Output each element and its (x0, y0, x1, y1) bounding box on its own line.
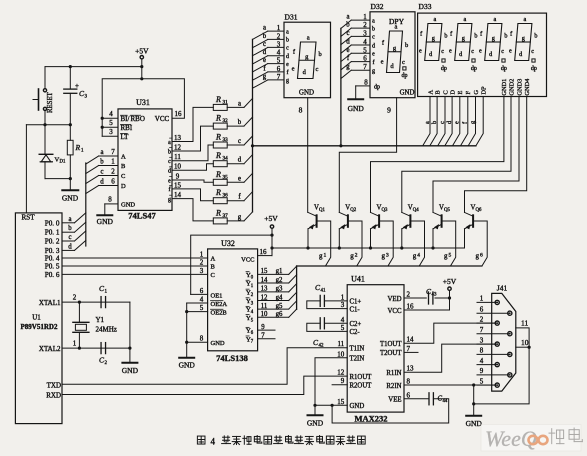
svg-text:c: c (263, 41, 266, 48)
svg-text:1: 1 (111, 158, 115, 166)
svg-text:C: C (121, 173, 125, 180)
svg-text:OE1: OE1 (211, 292, 223, 299)
svg-text:A: A (211, 256, 216, 263)
svg-text:RXD: RXD (46, 392, 61, 400)
svg-text:dp: dp (531, 66, 537, 72)
svg-text:9: 9 (341, 377, 345, 385)
watermark WeeQoo (481, 425, 582, 452)
svg-text:b: b (286, 38, 289, 44)
svg-text:c: c (531, 48, 534, 55)
svg-text:+5V: +5V (264, 214, 278, 223)
svg-text:dp: dp (471, 66, 477, 72)
wire TXD to T1IN (62, 348, 347, 385)
svg-text:b: b (504, 33, 507, 40)
svg-text:8: 8 (407, 378, 411, 386)
svg-text:9: 9 (387, 106, 391, 115)
svg-text:e: e (419, 47, 422, 54)
svg-text:4: 4 (200, 296, 204, 304)
svg-text:2: 2 (363, 21, 367, 29)
svg-text:G: G (473, 90, 480, 95)
svg-text:2: 2 (407, 291, 411, 299)
svg-text:b: b (100, 159, 104, 166)
svg-text:P0. 4: P0. 4 (45, 255, 60, 263)
svg-text:g: g (413, 252, 417, 260)
svg-text:J41: J41 (497, 284, 508, 293)
+5V supply (U32 / transistor rail) (264, 214, 278, 256)
svg-text:P0. 2: P0. 2 (45, 238, 60, 246)
svg-text:U41: U41 (351, 275, 365, 284)
svg-text:36: 36 (223, 193, 229, 199)
U31 output pin letters and numbers (168, 134, 182, 203)
svg-text:R1OUT: R1OUT (350, 374, 373, 381)
svg-text:d: d (286, 54, 289, 60)
wire D32 bus to main bus (339, 28, 342, 147)
svg-text:4: 4 (341, 316, 345, 324)
svg-text:9: 9 (176, 173, 180, 181)
transistor VQ4 (402, 205, 425, 267)
svg-text:a: a (168, 140, 171, 146)
svg-text:B: B (121, 163, 126, 170)
svg-text:12: 12 (337, 369, 345, 377)
svg-text:74LS47: 74LS47 (128, 211, 156, 221)
wire R1IN to J41 pin3 (404, 344, 497, 372)
svg-text:GND3: GND3 (516, 79, 523, 96)
svg-text:41: 41 (321, 289, 327, 294)
svg-text:8: 8 (108, 196, 112, 204)
svg-text:7: 7 (277, 73, 281, 81)
capacitor C42 (307, 318, 347, 349)
svg-text:dp: dp (374, 84, 380, 90)
svg-text:a: a (424, 121, 431, 124)
svg-text:c: c (68, 234, 71, 241)
U41 MAX232 box (347, 275, 404, 413)
svg-text:24MHz: 24MHz (96, 326, 117, 334)
svg-text:GND2: GND2 (508, 79, 515, 96)
svg-text:C: C (442, 90, 449, 94)
svg-text:e: e (286, 62, 289, 68)
svg-text:37: 37 (223, 213, 229, 219)
emitter rail +5V (272, 246, 465, 249)
U32 74LS138 box (208, 239, 258, 351)
svg-text:RBI: RBI (121, 124, 133, 132)
svg-text:g: g (444, 252, 448, 260)
svg-text:T2IN: T2IN (350, 356, 365, 363)
transistor VQ6 (465, 205, 488, 267)
svg-text:43: 43 (432, 293, 438, 298)
svg-text:g: g (346, 64, 350, 71)
D31 input pins a-g (253, 24, 290, 88)
svg-text:e: e (449, 47, 452, 54)
svg-text:a: a (494, 16, 497, 23)
svg-text:a: a (307, 35, 310, 42)
capacitor C43 (404, 287, 450, 304)
capacitor C44 (VEE) (332, 393, 449, 423)
base bus (297, 265, 482, 267)
svg-text:2: 2 (277, 32, 281, 40)
svg-text:GND4: GND4 (524, 78, 531, 96)
svg-text:d: d (263, 49, 267, 56)
svg-text:5: 5 (480, 377, 484, 385)
D31 pin 8 wire to VQ1 (299, 98, 308, 213)
svg-text:10: 10 (521, 338, 529, 347)
svg-text:R: R (215, 188, 221, 197)
svg-text:g: g (263, 73, 267, 80)
crystal Y1 24MHz (73, 302, 117, 348)
svg-text:P0. 1: P0. 1 (45, 229, 60, 237)
svg-text:b: b (534, 33, 537, 40)
U1 P89V51RD2 box (15, 213, 62, 424)
D33 segment wires A-DP to bus (423, 97, 484, 146)
svg-text:1: 1 (200, 251, 204, 259)
svg-text:GND: GND (350, 403, 365, 410)
svg-text:P0. 5: P0. 5 (45, 263, 60, 271)
svg-text:7: 7 (363, 63, 367, 71)
svg-text:6: 6 (111, 178, 115, 186)
capacitor C3 (64, 67, 88, 125)
svg-text:10: 10 (337, 350, 345, 358)
svg-text:5: 5 (363, 46, 367, 54)
svg-text:a: a (434, 16, 437, 23)
svg-text:3: 3 (386, 253, 389, 259)
U1 P0.4-P0.6 labels (45, 255, 60, 279)
svg-text:5: 5 (109, 119, 113, 127)
svg-text:b: b (405, 42, 408, 49)
svg-text:B: B (211, 264, 216, 271)
capacitor C41 (307, 283, 347, 309)
U31 input pins A-D (99, 148, 126, 190)
svg-text:11: 11 (521, 319, 528, 328)
svg-text:a: a (263, 25, 266, 32)
svg-text:16: 16 (175, 110, 183, 118)
svg-text:1: 1 (73, 340, 77, 348)
svg-text:c: c (372, 35, 375, 41)
svg-text:R: R (215, 151, 221, 160)
U1 labels (21, 214, 58, 332)
svg-text:31: 31 (223, 99, 229, 105)
svg-text:14: 14 (261, 277, 268, 284)
D32 input pins a-g (341, 13, 375, 78)
svg-text:15: 15 (174, 181, 182, 189)
svg-text:32: 32 (223, 118, 229, 124)
svg-text:R: R (215, 114, 221, 123)
svg-text:OE2B: OE2B (211, 310, 228, 317)
svg-text:R2OUT: R2OUT (350, 383, 373, 390)
svg-text:f: f (169, 186, 171, 193)
U31 74LS47 box (118, 98, 172, 210)
svg-text:c: c (286, 46, 289, 52)
vertical bus (segment lines a-g to D31) (251, 39, 254, 212)
svg-text:OE2A: OE2A (211, 301, 228, 308)
svg-text:3: 3 (109, 128, 113, 136)
XTAL ground (122, 302, 139, 375)
svg-text:GND: GND (348, 104, 365, 113)
svg-text:VCC: VCC (388, 308, 402, 315)
svg-text:a: a (286, 29, 289, 35)
bus U32 outputs to transistor bases (296, 266, 298, 309)
svg-text:U31: U31 (136, 98, 150, 107)
svg-text:D33: D33 (419, 2, 432, 11)
resistor R1 (67, 125, 84, 191)
svg-text:b: b (372, 26, 375, 32)
caption 图4 单片机小系统及显示电路原理图 (197, 436, 365, 447)
svg-text:8: 8 (364, 79, 368, 87)
svg-text:4: 4 (417, 253, 420, 259)
U1 P0.0-P0.3 pins with bus taps (45, 213, 86, 255)
D32 pin 9 wire to VQ2 (339, 98, 396, 213)
svg-text:1: 1 (363, 13, 367, 21)
svg-text:MAX232: MAX232 (354, 414, 387, 424)
wire T2IN to GND (315, 358, 347, 406)
svg-text:dp: dp (501, 66, 507, 72)
svg-text:e: e (372, 52, 375, 58)
svg-text:35: 35 (223, 174, 229, 180)
svg-text:3: 3 (363, 29, 367, 37)
D33 four 7-segment digits (419, 16, 538, 72)
svg-text:g: g (238, 214, 242, 221)
svg-text:g: g (492, 35, 495, 42)
svg-text:P0. 6: P0. 6 (45, 271, 60, 279)
svg-text:e: e (479, 47, 482, 54)
svg-text:7: 7 (111, 148, 115, 156)
svg-text:T2OUT: T2OUT (380, 350, 402, 357)
svg-text:8: 8 (480, 347, 484, 355)
wire VCC pin16 to +5V (404, 309, 450, 311)
D32 GND label (400, 89, 415, 96)
svg-text:Q4: Q4 (413, 208, 419, 213)
svg-text:D32: D32 (371, 2, 384, 11)
svg-text:g3: g3 (276, 286, 283, 293)
U32 label 74LS138 (216, 353, 248, 363)
svg-text:g: g (168, 197, 171, 203)
transistor VQ2 (339, 205, 362, 267)
display D33 box (418, 2, 547, 97)
svg-text:b: b (474, 33, 477, 40)
svg-text:a: a (464, 16, 467, 23)
transistor VQ5 (433, 205, 456, 267)
U31 label 74LS47 (128, 211, 156, 221)
D33 bottom pin labels (427, 78, 531, 96)
svg-text:g: g (432, 35, 435, 42)
svg-text:P89V51RD2: P89V51RD2 (21, 323, 58, 331)
svg-text:34: 34 (223, 156, 229, 162)
svg-text:D: D (121, 183, 126, 190)
capacitor C1 (99, 284, 108, 308)
svg-text:R: R (215, 95, 221, 104)
svg-text:5: 5 (449, 253, 452, 259)
svg-text:VEE: VEE (388, 397, 401, 404)
svg-text:6: 6 (277, 65, 281, 73)
transistor VQ1 (308, 205, 331, 267)
svg-text:Y1: Y1 (96, 316, 105, 324)
svg-text:b: b (263, 33, 267, 40)
svg-text:g: g (476, 252, 480, 260)
svg-text:c: c (402, 59, 405, 66)
svg-text:e: e (346, 47, 349, 54)
svg-text:6: 6 (200, 287, 204, 295)
svg-text:d: d (372, 43, 375, 49)
svg-text:R1IN: R1IN (386, 370, 401, 377)
wire RXD to R1OUT (62, 376, 347, 394)
svg-text:R: R (215, 208, 221, 217)
svg-text:9: 9 (480, 367, 484, 375)
svg-text:2: 2 (480, 315, 484, 323)
wire VCC loop (+5V to U31 pins 4/5/3 and 16) (101, 77, 185, 136)
svg-text:g1: g1 (276, 268, 283, 275)
svg-text:2: 2 (200, 259, 204, 267)
U41 left pin numbers and names (337, 293, 372, 410)
svg-text:3: 3 (341, 301, 345, 309)
U32 outputs Y0-Y5 (g1-g6) (246, 266, 297, 323)
svg-text:/: / (128, 115, 130, 123)
svg-text:F: F (465, 91, 472, 95)
svg-text:g: g (319, 252, 323, 260)
svg-text:14: 14 (174, 191, 182, 199)
transistor VQ3 (371, 205, 394, 267)
U1 TXD/RXD pins (46, 382, 61, 400)
svg-text:C1+: C1+ (350, 299, 362, 306)
svg-text:E: E (457, 91, 464, 95)
D32 7-segment digit (381, 24, 409, 73)
svg-text:15: 15 (261, 268, 268, 275)
svg-text:13: 13 (174, 134, 182, 142)
svg-text:4: 4 (363, 38, 367, 46)
svg-text:44: 44 (443, 399, 448, 404)
wire T1OUT to J41 pin2 (404, 323, 497, 343)
U32 OE1 wire to +5V (191, 235, 272, 299)
U31 pin labels (top) (109, 110, 182, 141)
svg-text:b: b (431, 121, 438, 124)
svg-text:1: 1 (324, 253, 327, 259)
connector J41 body (492, 284, 516, 392)
svg-text:9: 9 (261, 324, 265, 331)
svg-text:c: c (100, 169, 103, 176)
svg-text:GND: GND (400, 89, 415, 96)
svg-text:15: 15 (337, 398, 345, 406)
U41 label MAX232 (354, 414, 387, 424)
svg-text:b: b (238, 119, 242, 126)
svg-text:GND: GND (299, 89, 314, 97)
svg-text:P0. 0: P0. 0 (45, 219, 60, 227)
svg-text:g: g (372, 69, 375, 75)
svg-text:C: C (211, 272, 215, 279)
svg-text:GND: GND (466, 419, 483, 428)
svg-text:GND: GND (179, 361, 196, 370)
svg-text:d: d (100, 179, 104, 186)
wires P0.4-P0.6 to U32 A/B/C (62, 251, 216, 280)
svg-text:33: 33 (223, 137, 229, 143)
svg-text:R: R (215, 170, 221, 179)
svg-text:13: 13 (407, 365, 415, 373)
svg-text:e: e (454, 121, 461, 124)
svg-text:10: 10 (174, 163, 182, 171)
svg-text:16: 16 (407, 303, 415, 311)
svg-text:RESET: RESET (47, 91, 54, 113)
svg-text:42: 42 (319, 344, 325, 349)
svg-text:a: a (346, 14, 349, 21)
svg-text:3: 3 (277, 40, 281, 48)
svg-text:e: e (168, 178, 171, 184)
svg-text:Q6: Q6 (476, 208, 482, 213)
svg-text:c: c (238, 138, 241, 145)
svg-text:11: 11 (337, 340, 344, 348)
svg-text:Q5: Q5 (444, 208, 450, 213)
svg-text:+5V: +5V (443, 277, 457, 286)
svg-text:GND: GND (211, 340, 225, 347)
U31 pin 8 GND (97, 196, 136, 227)
D31 7-segment digit (292, 35, 322, 79)
D31 GND label (299, 89, 314, 97)
wire J41 shell 10/11 to ground (474, 319, 531, 404)
J41 pins (477, 295, 512, 388)
U32 pin 8 GND (179, 335, 225, 370)
node reset junction (26, 123, 72, 126)
U1 XTAL pins (39, 294, 130, 354)
svg-text:C1-: C1- (350, 306, 361, 313)
svg-text:6: 6 (363, 55, 367, 63)
bus taps to U31 A-D (86, 156, 99, 194)
svg-text:1: 1 (277, 24, 281, 32)
svg-text:g: g (286, 78, 289, 84)
svg-text:g: g (462, 35, 465, 42)
svg-text:c: c (501, 48, 504, 55)
svg-text:R2IN: R2IN (386, 383, 401, 390)
svg-text:7: 7 (480, 326, 484, 334)
U41 T2OUT stub (404, 351, 418, 353)
wire to RST (25, 125, 27, 213)
svg-text:VCC: VCC (241, 257, 254, 264)
wires 74LS47 outputs to resistors (172, 107, 213, 220)
svg-text:g5: g5 (276, 303, 283, 310)
U32 VCC pin 16 (241, 248, 272, 264)
svg-text:4: 4 (277, 49, 281, 57)
U41 R2OUT stub (332, 384, 347, 386)
svg-text:Q2: Q2 (350, 208, 356, 213)
svg-text:R: R (75, 143, 81, 152)
svg-text:13: 13 (261, 286, 268, 293)
svg-text:T1IN: T1IN (350, 346, 365, 353)
svg-text:5: 5 (277, 57, 281, 65)
svg-text:XTAL2: XTAL2 (39, 345, 61, 353)
svg-text:f: f (373, 59, 375, 66)
D33 digit common wires GND1-GND4 to VQ3-VQ6 (371, 97, 527, 213)
svg-text:g2: g2 (276, 277, 283, 284)
resistors R31-R37 with output letters (213, 95, 252, 224)
svg-text:a: a (100, 149, 103, 156)
svg-text:2: 2 (111, 168, 115, 176)
svg-text:e: e (238, 175, 241, 182)
svg-text:4: 4 (480, 357, 484, 365)
ground (reset) (62, 190, 79, 202)
svg-text:GND1: GND1 (501, 79, 508, 96)
pushbutton RESET (33, 67, 54, 125)
svg-text:b: b (319, 51, 322, 58)
svg-text:4: 4 (211, 437, 216, 447)
svg-text:RBO: RBO (131, 115, 145, 123)
svg-text:XTAL1: XTAL1 (39, 299, 61, 307)
svg-text:B: B (434, 90, 441, 94)
diode VD1 (39, 125, 72, 181)
svg-text:1: 1 (480, 295, 484, 303)
svg-text:12: 12 (261, 294, 268, 301)
svg-text:3: 3 (480, 336, 484, 344)
svg-text:a: a (372, 18, 375, 24)
svg-text:RST: RST (22, 214, 36, 222)
svg-text:c: c (168, 159, 171, 165)
svg-text:T1OUT: T1OUT (380, 341, 402, 348)
svg-text:g6: g6 (276, 311, 283, 318)
svg-text:8: 8 (299, 106, 303, 115)
svg-text:C2-: C2- (350, 329, 361, 336)
